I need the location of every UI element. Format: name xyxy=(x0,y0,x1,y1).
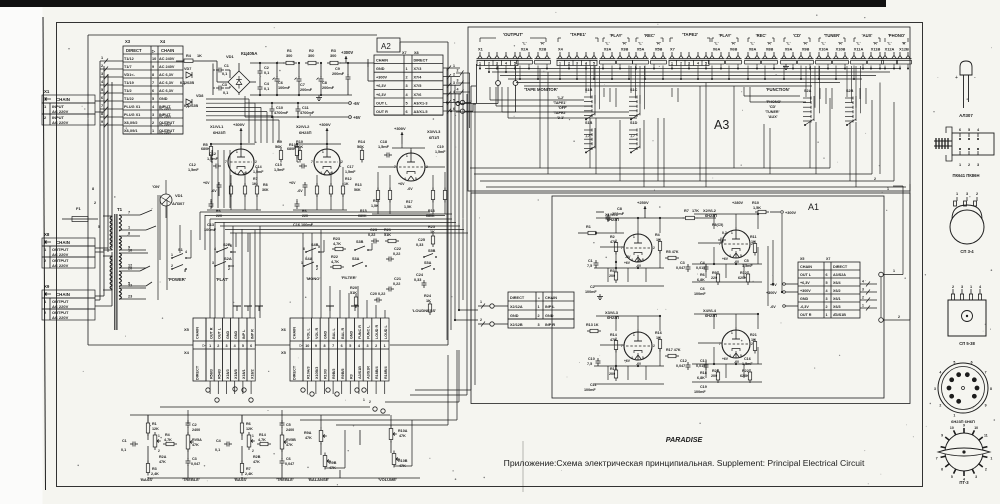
svg-text:-6V: -6V xyxy=(770,305,776,309)
svg-text:4: 4 xyxy=(320,171,322,175)
svg-text:GND: GND xyxy=(159,97,168,101)
balance pots R9A R9B xyxy=(304,428,337,483)
svg-text:4: 4 xyxy=(729,254,731,258)
svg-text:X8,X9/2: X8,X9/2 xyxy=(124,121,138,125)
cathode network of X1/VL1 xyxy=(188,143,261,218)
connector X9 (AC output) xyxy=(42,284,95,320)
connector X2B xyxy=(535,42,551,65)
potentiometer legend СП 3-4 xyxy=(950,192,984,254)
svg-text:C10: C10 xyxy=(276,106,283,110)
svg-text:C5: C5 xyxy=(744,259,749,263)
svg-text:R8: R8 xyxy=(263,183,268,187)
svg-text:'FILTER': 'FILTER' xyxy=(341,275,357,280)
svg-text:R11: R11 xyxy=(750,235,757,239)
svg-text:LOUD L: LOUD L xyxy=(384,325,388,339)
svg-text:R10B: R10B xyxy=(398,459,408,463)
svg-text:7,5: 7,5 xyxy=(587,264,592,268)
page crease mark xyxy=(522,441,524,492)
svg-text:GND: GND xyxy=(510,314,519,318)
svg-text:X7/5: X7/5 xyxy=(414,84,422,88)
svg-text:47K: 47K xyxy=(159,460,166,464)
svg-text:6Н23П: 6Н23П xyxy=(299,130,312,135)
svg-text:1: 1 xyxy=(826,313,828,317)
A3 signal bus lines xyxy=(479,64,909,86)
svg-text:A3: A3 xyxy=(714,118,729,132)
svg-text:1: 1 xyxy=(406,154,408,158)
svg-text:1,5mF: 1,5mF xyxy=(378,145,390,149)
left page margin xyxy=(0,7,43,504)
svg-text:202mF: 202mF xyxy=(612,212,625,216)
svg-text:6П1П: 6П1П xyxy=(429,135,439,140)
svg-text:X1: X1 xyxy=(478,47,484,52)
svg-text:'R': 'R' xyxy=(873,42,878,46)
svg-text:3: 3 xyxy=(101,72,103,76)
svg-text:1: 1 xyxy=(301,261,303,265)
svg-text:'FUNCTION': 'FUNCTION' xyxy=(766,87,790,92)
svg-text:100mF: 100mF xyxy=(278,86,291,90)
svg-text:4,7K: 4,7K xyxy=(258,438,266,442)
svg-text:S3A: S3A xyxy=(352,257,360,261)
svg-text:X6/4: X6/4 xyxy=(833,281,842,285)
svg-text:X4: X4 xyxy=(184,350,190,355)
svg-text:1,5mF: 1,5mF xyxy=(435,150,446,154)
svg-text:1: 1 xyxy=(887,187,889,191)
svg-text:7: 7 xyxy=(225,160,227,164)
svg-text:1K: 1K xyxy=(197,54,202,58)
svg-text:CHAIN: CHAIN xyxy=(293,327,297,339)
svg-text:7: 7 xyxy=(101,104,103,108)
svg-text:R54/3: R54/3 xyxy=(218,369,222,379)
svg-text:2,4K: 2,4K xyxy=(245,472,253,476)
svg-text:10: 10 xyxy=(128,249,132,253)
svg-text:8: 8 xyxy=(92,187,94,191)
filter cap C9 200mF xyxy=(332,63,351,95)
svg-text:OUT L: OUT L xyxy=(800,273,812,277)
switch S2B stack xyxy=(845,89,856,126)
svg-text:C13: C13 xyxy=(207,223,214,227)
svg-text:+250V: +250V xyxy=(637,200,649,205)
svg-text:+300V: +300V xyxy=(394,126,406,131)
svg-text:C3: C3 xyxy=(222,83,227,87)
svg-text:R8(C5): R8(C5) xyxy=(712,223,723,227)
svg-text:0,22: 0,22 xyxy=(393,282,400,286)
svg-text:VOL L: VOL L xyxy=(306,327,310,339)
svg-text:R2: R2 xyxy=(610,235,615,239)
svg-text:VD1: VD1 xyxy=(226,54,235,59)
svg-text:-6V: -6V xyxy=(734,260,740,264)
svg-text:R15: R15 xyxy=(360,209,367,213)
svg-text:7: 7 xyxy=(985,371,987,375)
TAPE MONITOR labels xyxy=(524,87,567,120)
svg-text:OUT L: OUT L xyxy=(376,101,388,105)
table X6/X5 xyxy=(281,318,389,381)
svg-text:R12: R12 xyxy=(345,177,352,181)
svg-text:R9B/5: R9B/5 xyxy=(341,369,345,379)
svg-text:9: 9 xyxy=(152,65,154,69)
svg-text:C11: C11 xyxy=(302,106,309,110)
switch S1 POWER xyxy=(168,247,191,282)
svg-text:X2A: X2A xyxy=(521,47,529,52)
svg-text:'AUX': 'AUX' xyxy=(862,33,873,38)
svg-text:300: 300 xyxy=(286,54,292,58)
svg-text:10: 10 xyxy=(305,344,309,348)
svg-text:X2B: X2B xyxy=(539,47,547,52)
A1 supply parts C8 R7 xyxy=(596,200,716,222)
svg-text:R22: R22 xyxy=(331,255,338,259)
svg-text:+6,3V: +6,3V xyxy=(376,84,386,88)
connector X11A xyxy=(851,42,867,65)
svg-text:4700mF: 4700mF xyxy=(274,111,289,115)
svg-text:'CD': 'CD' xyxy=(769,105,776,109)
svg-text:5: 5 xyxy=(951,475,953,479)
svg-text:3: 3 xyxy=(457,79,459,83)
svg-text:4: 4 xyxy=(697,62,699,66)
connector X8B xyxy=(762,42,778,65)
svg-text:'TAPE MONITOR': 'TAPE MONITOR' xyxy=(524,87,558,92)
middle interconnect bus 2 xyxy=(410,100,475,395)
svg-text:4: 4 xyxy=(505,62,507,66)
svg-text:'LOUDNESS': 'LOUDNESS' xyxy=(412,308,436,313)
svg-text:4,7K: 4,7K xyxy=(331,260,339,264)
svg-text:AC 240V: AC 240V xyxy=(159,65,175,69)
svg-text:200mF: 200mF xyxy=(332,72,345,76)
svg-text:X8A: X8A xyxy=(749,47,757,52)
tube X1/VL1 6Н23П (A1) xyxy=(594,212,664,286)
loudness network S5 R24 R25 C24 C25 xyxy=(412,225,437,315)
svg-text:+6V: +6V xyxy=(353,115,361,120)
svg-text:+: + xyxy=(955,75,958,81)
svg-text:7: 7 xyxy=(311,160,313,164)
A3 internal drops xyxy=(490,66,889,191)
svg-text:C11: C11 xyxy=(590,383,597,387)
svg-text:+6,3V: +6,3V xyxy=(376,93,386,97)
svg-text:'TUNER': 'TUNER' xyxy=(824,33,840,38)
svg-text:'REC': 'REC' xyxy=(756,33,767,38)
table A1 outputs X5/X7 xyxy=(798,257,860,318)
svg-text:X8B: X8B xyxy=(766,47,774,52)
svg-text:X8: X8 xyxy=(414,51,419,55)
switch S1B upper xyxy=(584,88,595,120)
svg-text:+6V: +6V xyxy=(722,357,729,361)
svg-text:R17: R17 xyxy=(406,200,413,204)
svg-text:220: 220 xyxy=(302,214,308,218)
svg-text:0,047: 0,047 xyxy=(191,462,200,466)
svg-text:A3/S1B: A3/S1B xyxy=(358,366,362,379)
svg-text:R14: R14 xyxy=(358,140,366,144)
svg-text:+300V: +300V xyxy=(376,76,388,80)
svg-text:C2: C2 xyxy=(192,423,197,427)
svg-text:1: 1 xyxy=(236,150,238,154)
connector X1 (AC input) xyxy=(42,89,95,125)
label A1 xyxy=(808,202,819,212)
svg-text:'OFF': 'OFF' xyxy=(558,106,567,110)
svg-text:2: 2 xyxy=(217,344,219,348)
svg-text:9: 9 xyxy=(963,424,965,428)
svg-text:T1: T1 xyxy=(117,207,123,212)
svg-text:PLUG X1: PLUG X1 xyxy=(124,105,140,109)
svg-text:PLUG X1: PLUG X1 xyxy=(124,113,140,117)
svg-text:'TAPE1': 'TAPE1' xyxy=(570,32,586,37)
svg-text:GND: GND xyxy=(376,67,385,71)
svg-text:S1: S1 xyxy=(178,247,184,252)
svg-text:'TAPE2': 'TAPE2' xyxy=(553,111,566,115)
svg-text:C6: C6 xyxy=(700,287,705,291)
svg-text:C8: C8 xyxy=(322,81,327,85)
mains wiring bus xyxy=(95,61,112,306)
table X5/X4 xyxy=(184,318,255,381)
svg-text:2: 2 xyxy=(976,192,978,196)
svg-text:AC 220V: AC 220V xyxy=(52,304,69,309)
svg-text:DIRECT: DIRECT xyxy=(510,296,525,300)
svg-text:R7: R7 xyxy=(253,177,258,181)
svg-text:X8: X8 xyxy=(44,232,50,237)
svg-text:AC 6,3V: AC 6,3V xyxy=(159,89,174,93)
heater wiring bundle xyxy=(183,99,279,208)
svg-text:C15: C15 xyxy=(275,163,282,167)
svg-text:4: 4 xyxy=(404,177,406,181)
svg-text:'CD': 'CD' xyxy=(793,33,801,38)
svg-text:2: 2 xyxy=(480,318,482,322)
block A1 outer boundary xyxy=(471,193,910,404)
svg-text:5: 5 xyxy=(152,97,154,101)
svg-text:X3A: X3A xyxy=(604,47,612,52)
svg-text:8: 8 xyxy=(101,112,103,116)
svg-text:GND: GND xyxy=(234,330,238,339)
svg-text:2: 2 xyxy=(426,165,428,169)
volume pots R10A R10B xyxy=(378,426,408,483)
svg-text:R6: R6 xyxy=(216,209,221,213)
svg-text:+300V: +300V xyxy=(319,122,331,127)
svg-text:T1/22: T1/22 xyxy=(124,97,134,101)
resistors R22 R23 xyxy=(330,237,346,269)
svg-text:AC 220V: AC 220V xyxy=(159,131,171,135)
svg-text:0,047: 0,047 xyxy=(676,266,685,270)
connector X10B xyxy=(833,42,849,65)
svg-text:+6V: +6V xyxy=(398,182,405,186)
A3 group labels xyxy=(480,32,908,42)
svg-text:'L': 'L' xyxy=(750,42,754,46)
svg-text:GND: GND xyxy=(545,314,554,318)
svg-text:4: 4 xyxy=(234,171,236,175)
title PARADISE xyxy=(666,435,703,444)
svg-text:T1/12: T1/12 xyxy=(124,57,134,61)
svg-text:2: 2 xyxy=(939,403,941,407)
svg-text:CHAIN: CHAIN xyxy=(56,240,70,245)
svg-text:'TAPE2': 'TAPE2' xyxy=(682,32,698,37)
svg-text:9: 9 xyxy=(315,344,317,348)
svg-text:10: 10 xyxy=(152,57,156,61)
svg-text:X10B: X10B xyxy=(836,47,846,52)
switch S2A stack xyxy=(803,89,814,126)
signal wire bundle xyxy=(200,212,468,233)
svg-text:-6V: -6V xyxy=(297,189,303,193)
svg-text:C2: C2 xyxy=(264,66,269,70)
filter cap C7 200mF xyxy=(295,63,313,95)
label A3 xyxy=(714,118,729,132)
svg-text:DIRECT: DIRECT xyxy=(414,58,429,62)
svg-text:X9B: X9B xyxy=(802,47,810,52)
rotary switch legend ПТ-3 xyxy=(936,424,993,486)
svg-text:0,1: 0,1 xyxy=(223,91,228,95)
connector X9B xyxy=(798,42,814,65)
middle interconnect bus xyxy=(446,68,478,395)
svg-text:1: 1 xyxy=(956,192,958,196)
svg-text:2: 2 xyxy=(653,344,655,348)
svg-text:1: 1 xyxy=(453,64,455,68)
svg-text:5: 5 xyxy=(740,254,742,258)
svg-text:1: 1 xyxy=(990,457,992,461)
svg-text:C21: C21 xyxy=(394,277,401,281)
svg-text:0,33: 0,33 xyxy=(414,278,421,282)
svg-text:X18/3: X18/3 xyxy=(226,369,230,379)
tone network wiring xyxy=(130,350,457,478)
svg-text:C2: C2 xyxy=(590,285,595,289)
svg-text:2: 2 xyxy=(680,62,682,66)
svg-text:10: 10 xyxy=(950,426,954,430)
svg-text:AC 220V: AC 220V xyxy=(159,115,171,119)
svg-text:7: 7 xyxy=(128,211,130,215)
connector X10A xyxy=(816,42,832,65)
svg-text:5: 5 xyxy=(642,356,644,360)
svg-text:680K: 680K xyxy=(426,214,435,218)
svg-text:6: 6 xyxy=(959,128,961,132)
coupling parts VL1 xyxy=(204,140,303,232)
svg-text:R7: R7 xyxy=(246,467,251,471)
svg-text:3: 3 xyxy=(961,285,963,289)
svg-text:АЛ307: АЛ307 xyxy=(959,113,973,118)
svg-text:2: 2 xyxy=(985,467,987,471)
svg-text:5: 5 xyxy=(968,128,970,132)
svg-text:4: 4 xyxy=(185,250,187,254)
svg-text:C22: C22 xyxy=(394,247,401,251)
connector X1 xyxy=(477,47,519,66)
svg-text:3: 3 xyxy=(366,344,368,348)
svg-text:X12B: X12B xyxy=(899,47,909,52)
svg-text:'R': 'R' xyxy=(767,42,772,46)
svg-text:1: 1 xyxy=(322,150,324,154)
svg-text:4700mF: 4700mF xyxy=(300,111,315,115)
svg-text:2: 2 xyxy=(316,267,318,271)
svg-text:5: 5 xyxy=(415,177,417,181)
svg-text:1,5mF: 1,5mF xyxy=(253,170,264,174)
svg-text:S2A: S2A xyxy=(224,256,232,261)
svg-text:X6A: X6A xyxy=(713,47,721,52)
svg-text:X11A: X11A xyxy=(854,47,864,52)
svg-text:'R': 'R' xyxy=(656,42,661,46)
svg-text:+300V: +300V xyxy=(233,122,245,127)
svg-text:'L': 'L' xyxy=(605,42,609,46)
svg-text:R2: R2 xyxy=(309,49,314,53)
svg-text:-6V: -6V xyxy=(637,259,643,263)
A3 bottom nested wires xyxy=(470,98,906,187)
svg-text:C16: C16 xyxy=(744,357,751,361)
svg-text:X18/1: X18/1 xyxy=(242,369,246,379)
main schematic frame xyxy=(57,23,923,487)
svg-text:5: 5 xyxy=(953,360,955,364)
svg-text:+6V: +6V xyxy=(624,261,631,265)
LED symbol АЛ307 (legend) xyxy=(955,61,976,118)
svg-text:7: 7 xyxy=(936,457,938,461)
svg-text:R20: R20 xyxy=(350,286,357,290)
svg-text:-6V: -6V xyxy=(211,189,217,193)
tone control right channel (BASS/TREBLE) xyxy=(215,415,296,482)
svg-text:7: 7 xyxy=(332,344,334,348)
svg-text:A3/S2A: A3/S2A xyxy=(833,273,846,277)
svg-text:51K: 51K xyxy=(384,233,391,237)
svg-text:LOUD R: LOUD R xyxy=(375,325,379,339)
svg-text:+6,3V: +6,3V xyxy=(800,281,810,285)
svg-text:FUNC L: FUNC L xyxy=(367,325,371,339)
svg-text:●: ● xyxy=(538,296,540,300)
A1 output pins xyxy=(860,184,910,322)
filter network C20-C23 R20 R21 xyxy=(350,228,401,308)
svg-text:▷: ▷ xyxy=(299,344,303,348)
transformer T1 xyxy=(98,207,156,330)
supply rail R1 R2 R3 +300V xyxy=(250,49,374,118)
svg-text:X9: X9 xyxy=(44,284,50,289)
svg-text:6,8K: 6,8K xyxy=(697,376,705,380)
svg-text:BAL L: BAL L xyxy=(332,327,336,339)
A1 supply stubs xyxy=(766,214,798,309)
tube X3/VL3 6Н23П (A1) xyxy=(594,310,664,384)
svg-text:X5: X5 xyxy=(281,350,287,355)
svg-text:A1: A1 xyxy=(808,202,819,212)
svg-text:'AUX': 'AUX' xyxy=(768,115,778,119)
svg-text:C12: C12 xyxy=(680,359,687,363)
svg-text:1: 1 xyxy=(731,231,733,235)
svg-text:C5: C5 xyxy=(286,423,291,427)
svg-text:6: 6 xyxy=(152,89,154,93)
svg-text:R3: R3 xyxy=(349,374,353,379)
table A1 inputs DIRECT/CHAIN xyxy=(508,292,574,328)
svg-text:17K: 17K xyxy=(692,209,699,213)
svg-text:'L': 'L' xyxy=(638,42,642,46)
svg-text:3: 3 xyxy=(934,387,936,391)
svg-text:R14: R14 xyxy=(259,433,267,437)
svg-text:Приложение:Схема электрическая: Приложение:Схема электрическая принципиа… xyxy=(504,458,865,468)
svg-text:R2B: R2B xyxy=(253,455,261,459)
svg-text:R6: R6 xyxy=(302,209,307,213)
label A2 xyxy=(377,38,400,52)
svg-text:47K: 47K xyxy=(399,434,406,438)
svg-text:2: 2 xyxy=(152,121,154,125)
svg-text:INP L: INP L xyxy=(242,329,246,339)
svg-text:2: 2 xyxy=(228,267,230,271)
svg-text:R24: R24 xyxy=(424,294,432,298)
svg-text:C23: C23 xyxy=(370,228,377,232)
svg-text:1,5K: 1,5K xyxy=(371,204,379,208)
svg-text:C12: C12 xyxy=(209,152,216,156)
svg-text:1,5mF: 1,5mF xyxy=(742,362,753,366)
switch S2 FLAT xyxy=(212,242,236,282)
svg-text:0,2: 0,2 xyxy=(722,231,727,235)
svg-text:2400: 2400 xyxy=(286,428,294,432)
wire bundle drops xyxy=(200,212,385,318)
A3 input wiring xyxy=(456,64,518,128)
A1 input pins xyxy=(478,300,508,327)
svg-text:АЛ307: АЛ307 xyxy=(172,201,185,206)
svg-text:ПК641 ПК86Н: ПК641 ПК86Н xyxy=(953,173,980,178)
svg-text:R3: R3 xyxy=(152,467,157,471)
svg-text:A3/X1-3: A3/X1-3 xyxy=(414,101,428,105)
svg-text:VD8: VD8 xyxy=(196,94,203,98)
svg-text:2: 2 xyxy=(101,64,103,68)
svg-text:X3/VL3: X3/VL3 xyxy=(427,129,441,134)
svg-text:R1: R1 xyxy=(586,225,591,229)
svg-text:8: 8 xyxy=(323,344,325,348)
svg-text:R6: R6 xyxy=(246,422,251,426)
svg-text:R25: R25 xyxy=(428,225,435,229)
